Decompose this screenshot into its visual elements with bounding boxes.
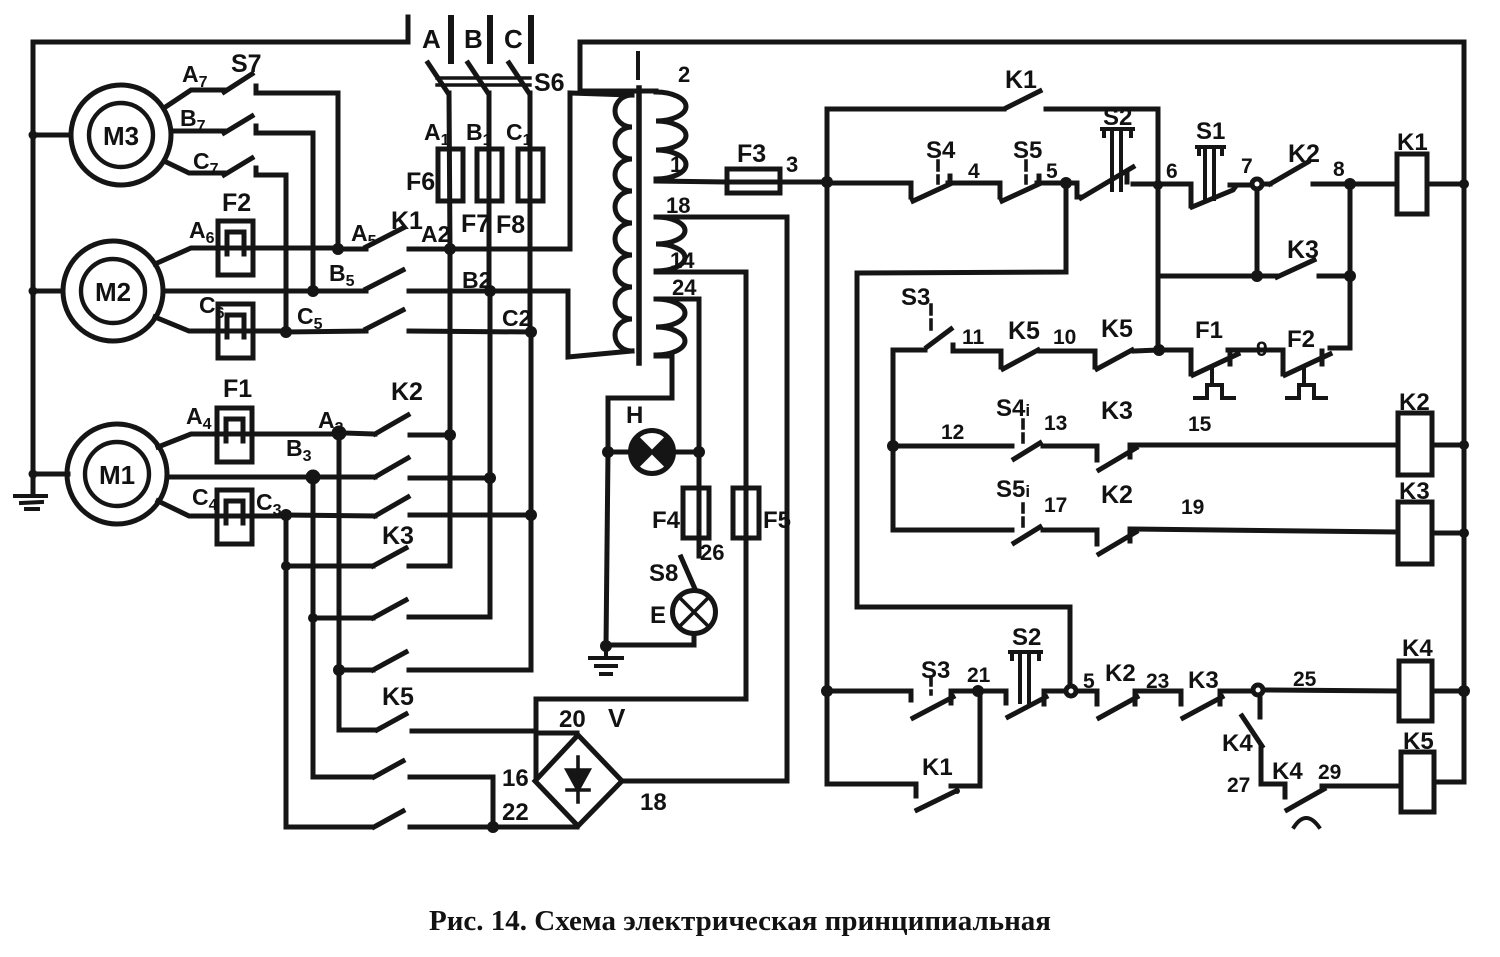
motor M1 — [67, 424, 167, 524]
contactor K2 int step — [1095, 530, 1100, 544]
wire column C2 down — [529, 332, 534, 670]
svg-text:S8: S8 — [649, 560, 678, 587]
wire node 10 — [1040, 349, 1095, 354]
svg-text:K2: K2 — [1399, 389, 1430, 416]
wire node 20 stub to bridge top — [536, 731, 577, 736]
wire K3 row3 fixed to C column — [409, 668, 531, 673]
junction K2 B fixed on B column — [484, 472, 496, 484]
wire M1 phase A4 — [158, 434, 334, 447]
svg-text:23: 23 — [1146, 670, 1169, 693]
svg-text:K4: K4 — [1402, 635, 1433, 662]
wire C3 row to K2 contact — [286, 515, 375, 516]
button S2b step — [1004, 691, 1009, 703]
wire right bus vertical — [1462, 42, 1467, 782]
relay coil K5 — [1401, 752, 1434, 812]
svg-text:A: A — [422, 24, 441, 54]
wire B2 row to primary bottom — [490, 291, 632, 357]
button S1 blade — [1192, 186, 1236, 207]
wire row 12 — [893, 444, 1012, 449]
wire K5 int to F1 row — [1134, 350, 1191, 351]
svg-text:26: 26 — [700, 540, 724, 565]
wire M2 phase A6 — [155, 248, 338, 264]
svg-text:K3: K3 — [1101, 397, 1133, 425]
wire bus to M3 — [33, 133, 71, 138]
contactor K5 int step — [999, 351, 1004, 367]
wire node 24 down to lamp H right column — [656, 299, 699, 556]
contactor K5 int blade 2 — [1097, 350, 1132, 369]
wire F5 down and left to V bridge left — [536, 538, 746, 778]
wire node 1 to fuse F3 — [656, 181, 827, 182]
switch S7 blade B7 — [224, 116, 252, 133]
svg-text:F1: F1 — [223, 375, 252, 403]
transformer secondary winding 18-14 — [656, 217, 685, 271]
svg-text:K3: K3 — [382, 522, 414, 550]
wire node 25 stub down — [1258, 695, 1263, 717]
wire S7 B7 fixed to B5 column — [256, 126, 313, 288]
wire K1 B fixed to B2 junction — [409, 289, 490, 294]
svg-text:Рис. 14. Схема электрическая п: Рис. 14. Схема электрическая принципиаль… — [429, 905, 1051, 937]
svg-text:H: H — [626, 402, 643, 429]
svg-text:13: 13 — [1044, 412, 1067, 435]
junction K3 row2 on B3 column — [308, 613, 318, 623]
switch S5 step — [998, 183, 1003, 197]
svg-text:K2: K2 — [1101, 481, 1133, 509]
wire S6 A to fuse F6 — [449, 93, 450, 249]
svg-text:20: 20 — [559, 706, 586, 733]
svg-text:12: 12 — [941, 421, 964, 444]
wire K3 row2 fixed to B column — [409, 615, 490, 620]
svg-text:K5: K5 — [382, 683, 414, 711]
wire M1 phase B4 to B3 node — [167, 475, 308, 480]
wire K3 aux fixed — [1319, 274, 1350, 279]
thermal contact F1 step — [1189, 350, 1194, 374]
svg-text:M1: M1 — [99, 460, 135, 490]
relay coil K1 — [1397, 154, 1427, 214]
contactor K5 blade 2 — [374, 761, 403, 777]
junction K3 aux row node7 — [1251, 270, 1263, 282]
contactor K1b blade — [917, 792, 954, 810]
wire node 23 — [1135, 689, 1181, 694]
svg-text:F6: F6 — [406, 168, 435, 196]
wire S6 C to fuse F8 — [528, 93, 533, 332]
ground symbol lamp circuit — [590, 646, 622, 674]
contactor K2b step — [1095, 691, 1100, 704]
node 7 ring — [1252, 179, 1262, 189]
fuse F2 element A inner — [227, 232, 244, 254]
wire K2 A fixed — [410, 433, 450, 438]
svg-text:5: 5 — [1046, 160, 1058, 183]
svg-text:E: E — [650, 602, 666, 629]
junction node B5 — [307, 285, 319, 297]
wire B3 column down to K5 row2 — [311, 477, 316, 777]
switch S3b blade — [913, 697, 953, 718]
svg-text:S2: S2 — [1012, 624, 1041, 651]
svg-text:27: 27 — [1227, 774, 1250, 797]
wire bridge right to node 18 column — [622, 779, 787, 784]
wire K1 bypass row — [827, 782, 916, 787]
contactor K2 aux blade — [1270, 162, 1308, 184]
wire bottom row from bus — [827, 689, 911, 694]
thermal contact F1 tick — [1228, 351, 1233, 364]
svg-text:24: 24 — [672, 275, 697, 300]
svg-text:F8: F8 — [496, 211, 525, 239]
wire top-left bus stub up — [406, 17, 411, 42]
switch S7 blade C7 — [224, 158, 252, 175]
svg-text:S3: S3 — [901, 284, 930, 311]
svg-text:K1: K1 — [391, 207, 423, 235]
diode inside V — [567, 757, 589, 802]
svg-text:S1: S1 — [1196, 118, 1225, 145]
svg-text:29: 29 — [1318, 761, 1341, 784]
fuse F2 element A outer — [218, 221, 253, 275]
fuse F3 — [727, 169, 780, 193]
junction node 3 — [821, 176, 833, 188]
wire top-left bus horizontal — [33, 40, 408, 45]
wire M1 phase C4 — [158, 501, 286, 516]
junction node C5 — [280, 326, 292, 338]
svg-text:16: 16 — [502, 765, 529, 792]
wire S7 A7 fixed to A5 column — [256, 86, 338, 247]
svg-text:K2: K2 — [1105, 660, 1136, 687]
wire coil K5 to right bus — [1434, 780, 1464, 785]
junction row 12 bus — [887, 440, 899, 452]
svg-text:S5: S5 — [1013, 137, 1042, 164]
contactor K3 aux blade — [1277, 260, 1314, 277]
junction K3 row3 on A3 column — [333, 664, 345, 676]
wire coil K2 to right bus — [1432, 443, 1464, 448]
svg-text:K3: K3 — [1399, 478, 1430, 505]
contactor K3b tick — [1218, 695, 1223, 704]
svg-text:K3: K3 — [1188, 667, 1219, 694]
wire row1 node3 to S4 — [827, 181, 911, 186]
svg-text:M2: M2 — [95, 277, 131, 307]
wire K3 row1 moving — [286, 564, 373, 569]
wire coil K1 to right bus — [1427, 182, 1464, 187]
svg-text:M3: M3 — [103, 121, 139, 151]
wire node 7 — [1230, 183, 1252, 188]
svg-text:1: 1 — [670, 152, 682, 177]
ground chassis bottom-left — [15, 496, 46, 509]
thermal contact F1 blade — [1193, 354, 1238, 375]
wire K4a down to node 27 — [1261, 746, 1285, 784]
svg-text:K1: K1 — [922, 754, 953, 781]
wire S6 B to fuse F7 — [487, 93, 492, 291]
wire left control bus vertical — [825, 109, 830, 784]
wire lamp H left lead — [608, 450, 631, 455]
wire node 7 to K2 aux — [1262, 182, 1270, 187]
wire K1 C fixed to C2 junction — [409, 331, 531, 332]
wire node 5b — [1044, 689, 1066, 694]
node 25 ring — [1253, 685, 1263, 695]
contactor K4b step — [1283, 784, 1288, 797]
wire to node 25 — [1220, 689, 1253, 694]
transformer secondary winding 2-1 — [656, 92, 686, 179]
svg-text:K5: K5 — [1008, 317, 1040, 345]
junction F1 row left — [1153, 344, 1165, 356]
junction K2 A fixed on A column — [444, 429, 456, 441]
svg-text:C2: C2 — [502, 305, 531, 331]
junction node 8 — [1344, 178, 1356, 190]
wire node 18 right and down — [656, 217, 787, 781]
wire top bus right — [580, 40, 1464, 45]
contactor K3 blade 1 — [373, 548, 406, 566]
wire row 17 from bus corner — [893, 528, 1012, 533]
junction node 22 — [487, 821, 499, 833]
contactor K2b tick — [1133, 695, 1138, 704]
wire K3 row1 fixed to A column — [409, 564, 450, 569]
svg-text:8: 8 — [1333, 158, 1345, 181]
svg-text:K1: K1 — [1005, 66, 1037, 94]
svg-text:S5i: S5i — [996, 476, 1030, 503]
contactor K5 blade 1 — [377, 714, 406, 730]
contactor K4b delay arc — [1294, 818, 1319, 827]
contactor K1 main blade C — [366, 310, 403, 329]
terminal phase C — [528, 18, 534, 61]
wire A3 row to K2 contact — [344, 433, 375, 434]
contactor K4a break blade — [1242, 716, 1262, 746]
contactor K2 int blade — [1099, 532, 1136, 554]
wire coil K3 to right bus — [1432, 531, 1464, 536]
wire interlock block bus — [891, 350, 896, 530]
junction coil K1 right bus — [1459, 179, 1469, 189]
junction lamp H left — [602, 446, 614, 458]
svg-text:F3: F3 — [737, 140, 766, 168]
contactor K1b tip dot — [954, 788, 960, 794]
fuse F8 — [518, 149, 543, 201]
wire node 14 to fuse F5 — [656, 272, 746, 538]
thermal contact F2 blade — [1285, 354, 1330, 375]
motor M3 — [71, 85, 171, 185]
wire node 6 row — [1133, 182, 1191, 187]
wire M3 phase A7 — [164, 90, 224, 108]
switch S4 int link dash — [1021, 420, 1025, 443]
junction node 5 — [1060, 177, 1072, 189]
wire K5 row2 fixed to node 16 — [410, 777, 493, 827]
transformer secondary winding 24 — [656, 299, 685, 355]
contactor K3 int blade — [1099, 448, 1136, 470]
svg-text:F2: F2 — [1287, 326, 1315, 353]
switch S5 link dash — [1024, 161, 1028, 183]
junction C2 column — [525, 326, 537, 338]
signal lamp E — [673, 591, 716, 634]
fuse F5 — [733, 488, 759, 538]
svg-text:21: 21 — [967, 664, 991, 687]
switch S4 link dash — [936, 161, 940, 183]
wire node 5 — [1037, 176, 1077, 183]
wire K2 C fixed — [410, 513, 531, 518]
contactor K2 blade A — [375, 415, 408, 434]
switch S8 blade — [681, 557, 695, 589]
thermal contact F2 tick — [1320, 351, 1325, 364]
wire H left column down to ground node — [606, 452, 608, 646]
svg-text:S6: S6 — [534, 69, 565, 97]
junction A2 column — [444, 243, 456, 255]
svg-text:15: 15 — [1188, 413, 1212, 436]
contactor K4b blade — [1287, 789, 1324, 810]
junction coil K3 right bus — [1459, 528, 1469, 538]
contactor K5 int step 2 — [1093, 351, 1098, 367]
contactor K1 main blade B — [366, 270, 403, 289]
junction bottom row bus — [821, 685, 833, 697]
svg-text:C: C — [504, 24, 523, 54]
svg-text:F1: F1 — [1195, 317, 1223, 344]
svg-text:7: 7 — [1241, 155, 1253, 178]
wire node 11 — [953, 345, 1001, 351]
wire B5 row to K1 contact — [313, 289, 366, 294]
contactor K1 main blade A — [366, 228, 403, 247]
junction node A5 — [332, 243, 344, 255]
terminal phase A — [448, 18, 454, 61]
wire node 9 — [1228, 348, 1283, 353]
wire K5 row1 moving — [339, 728, 375, 733]
wire bus to M1 — [33, 472, 68, 477]
relay coil K4 — [1399, 661, 1432, 721]
contactor K3b blade — [1183, 697, 1222, 718]
thermal contact F1 release — [1195, 368, 1234, 398]
switch S3 blade — [927, 329, 951, 347]
wire K5 row3 fixed to bridge bottom — [410, 825, 577, 830]
svg-text:6: 6 — [1166, 160, 1178, 183]
switch S4 blade — [913, 184, 950, 201]
fuse F1 element A inner — [226, 419, 243, 441]
wire K1 aux fixed to node 6 — [1046, 109, 1158, 185]
junction K3 aux fixed — [1344, 270, 1356, 282]
button S1 plunger — [1197, 147, 1224, 199]
svg-text:18: 18 — [666, 193, 690, 218]
fuse F1 element A outer — [217, 408, 252, 462]
wire B3 row to K2 contact — [318, 475, 375, 480]
junction node 21 — [972, 685, 984, 697]
wire node 17 — [1043, 528, 1097, 533]
switch S6 blade B — [468, 63, 488, 93]
svg-text:K5: K5 — [1403, 728, 1434, 755]
svg-text:10: 10 — [1053, 326, 1076, 349]
svg-text:5: 5 — [1083, 670, 1095, 693]
switch S6 blade C — [509, 63, 529, 93]
wire node 25 to coil K4 — [1263, 690, 1399, 691]
wire C5 row to K1 contact — [286, 331, 366, 332]
wire A2 row to primary top — [450, 93, 632, 249]
svg-text:K3: K3 — [1287, 236, 1319, 264]
wire K2 B fixed — [410, 476, 490, 481]
wire K5 row3 moving — [286, 825, 372, 830]
wire bus to M2 — [33, 289, 63, 294]
wire M2 phase C6 — [155, 317, 286, 331]
fuse F7 — [477, 149, 502, 201]
transformer primary winding — [615, 95, 632, 351]
contactor K3 blade 2 — [373, 600, 406, 618]
wire node 6 down — [1156, 185, 1161, 350]
svg-text:11: 11 — [962, 326, 985, 349]
junction coil K2 right bus — [1459, 440, 1469, 450]
svg-text:18: 18 — [640, 789, 667, 816]
button S2b blade — [1008, 697, 1046, 717]
svg-text:K4: K4 — [1222, 730, 1253, 757]
button S2b plunger — [1010, 652, 1041, 702]
button S1 step — [1189, 185, 1194, 206]
svg-text:F5: F5 — [763, 507, 791, 534]
terminal phase B — [487, 18, 493, 61]
wire node 8 to coil K1 — [1313, 182, 1397, 187]
junction K2 C fixed on C column — [525, 509, 537, 521]
wire column B2 down — [488, 291, 493, 617]
svg-text:K2: K2 — [391, 378, 423, 406]
signal lamp H — [631, 431, 674, 474]
wire node 29 to coil K5 — [1322, 784, 1401, 789]
wire K1 A fixed to A2 junction — [409, 247, 450, 252]
wire K1b to node 21 — [951, 691, 980, 786]
wire S7 C7 fixed to C5 column — [256, 168, 286, 329]
node 5b ring — [1066, 686, 1076, 696]
svg-text:2: 2 — [678, 62, 690, 87]
junction ground node — [600, 640, 612, 652]
wire C3 column down to K5 row3 — [284, 515, 289, 827]
wire K5 row1 fixed to bridge column — [412, 729, 536, 734]
svg-text:A2: A2 — [421, 221, 450, 247]
contactor K1b step — [914, 784, 919, 796]
switch S6 blade A — [428, 63, 448, 93]
svg-text:19: 19 — [1181, 496, 1204, 519]
relay coil K3 — [1398, 502, 1432, 564]
switch S3 link dash — [929, 305, 933, 330]
junction lamp H right — [693, 446, 705, 458]
svg-text:S7: S7 — [231, 50, 262, 78]
junction node C3 — [280, 509, 292, 521]
svg-text:K2: K2 — [1288, 140, 1320, 168]
wire winding 24 bottom to lamp H left — [608, 356, 672, 452]
wire node5b to K2b — [1076, 689, 1097, 694]
switch S3b link dash — [929, 677, 933, 694]
contactor K5 blade 3 — [374, 811, 403, 827]
wire lamp E bottom to ground node — [606, 634, 694, 645]
motor M2 — [63, 241, 163, 341]
relay coil K2 — [1398, 413, 1432, 475]
svg-text:4: 4 — [968, 160, 980, 183]
wire K1 aux row — [827, 107, 1004, 112]
switch S6 link bar — [437, 78, 530, 85]
transformer core — [636, 88, 642, 363]
svg-text:B2: B2 — [462, 267, 491, 293]
wire K3 aux row — [1158, 274, 1277, 279]
contactor K2 blade C — [375, 497, 408, 516]
svg-text:F7: F7 — [461, 210, 490, 238]
rectifier bridge V — [535, 735, 622, 826]
switch S3 wire from bus — [893, 348, 925, 353]
wire M3 phase C7 — [164, 161, 224, 173]
wire M3 phase B7 — [172, 129, 224, 134]
contactor K1 aux blade — [1006, 91, 1040, 108]
transformer core top mark — [636, 53, 640, 78]
wire node 19 to coil K3 — [1130, 529, 1398, 532]
junction bus-M3 — [29, 131, 38, 140]
wire node 4 — [948, 176, 1000, 183]
fuse F2 element C inner — [227, 315, 244, 337]
svg-text:K1: K1 — [1397, 129, 1428, 156]
wire A3 column down to K5 row1 — [337, 433, 342, 730]
svg-text:3: 3 — [786, 152, 798, 177]
svg-text:14: 14 — [670, 248, 695, 273]
fuse F2 element C outer — [218, 304, 253, 358]
svg-text:F4: F4 — [652, 507, 681, 534]
junction node 6 — [1153, 180, 1163, 190]
svg-text:S2: S2 — [1103, 104, 1132, 131]
junction bus-M2 — [29, 287, 38, 296]
wire K5 row2 moving — [313, 775, 372, 780]
svg-text:S3: S3 — [921, 657, 950, 684]
wire node 13 — [1043, 444, 1097, 449]
fuse F6 — [438, 149, 463, 201]
contactor K3 blade 3 — [373, 652, 406, 670]
